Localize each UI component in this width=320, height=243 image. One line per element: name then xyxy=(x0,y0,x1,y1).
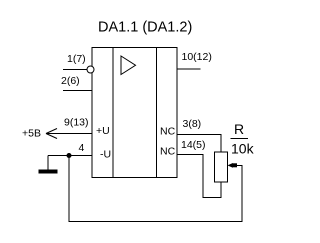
svg-text:NC: NC xyxy=(160,126,176,138)
wire junction down xyxy=(68,156,70,222)
svg-text:-U: -U xyxy=(100,149,111,161)
svg-text:+U: +U xyxy=(96,125,110,137)
wire pin 10 output xyxy=(177,68,201,70)
svg-text:4: 4 xyxy=(79,142,85,154)
junction node xyxy=(67,153,72,158)
resistor R body xyxy=(215,152,228,182)
wire right riser xyxy=(241,166,243,222)
svg-text:1(7): 1(7) xyxy=(67,53,86,65)
wire pin 14 xyxy=(177,154,221,198)
resistor R bottom lead xyxy=(220,182,222,198)
svg-text:2(6): 2(6) xyxy=(61,75,80,87)
svg-text:3(8): 3(8) xyxy=(183,118,202,130)
wire pin 2 input xyxy=(63,90,92,92)
svg-text:+5В: +5В xyxy=(22,128,41,140)
svg-text:NC: NC xyxy=(160,146,176,158)
svg-text:14(5): 14(5) xyxy=(181,139,206,151)
wire pin 4 -U supply xyxy=(48,155,92,157)
svg-text:10k: 10k xyxy=(231,141,255,157)
fraction bar xyxy=(231,138,249,140)
wire bottom rail xyxy=(69,221,243,223)
wire pin 3 xyxy=(177,134,221,152)
svg-text:DA1.1 (DA1.2): DA1.1 (DA1.2) xyxy=(98,20,192,36)
potentiometer wiper arrow xyxy=(228,163,238,168)
ground lead xyxy=(47,156,49,170)
svg-text:10(12): 10(12) xyxy=(182,51,212,63)
wire pin 1 input xyxy=(63,69,87,71)
wire pin 9 +U supply xyxy=(46,133,92,135)
op-amp triangle symbol xyxy=(121,56,136,75)
inverting input bubble xyxy=(87,66,94,73)
arrow to +5V xyxy=(46,129,57,139)
svg-text:R: R xyxy=(234,121,244,137)
wire wiper xyxy=(234,165,243,167)
op-amp U1 body xyxy=(92,48,177,178)
svg-text:9(13): 9(13) xyxy=(64,117,89,129)
ground xyxy=(39,170,58,174)
